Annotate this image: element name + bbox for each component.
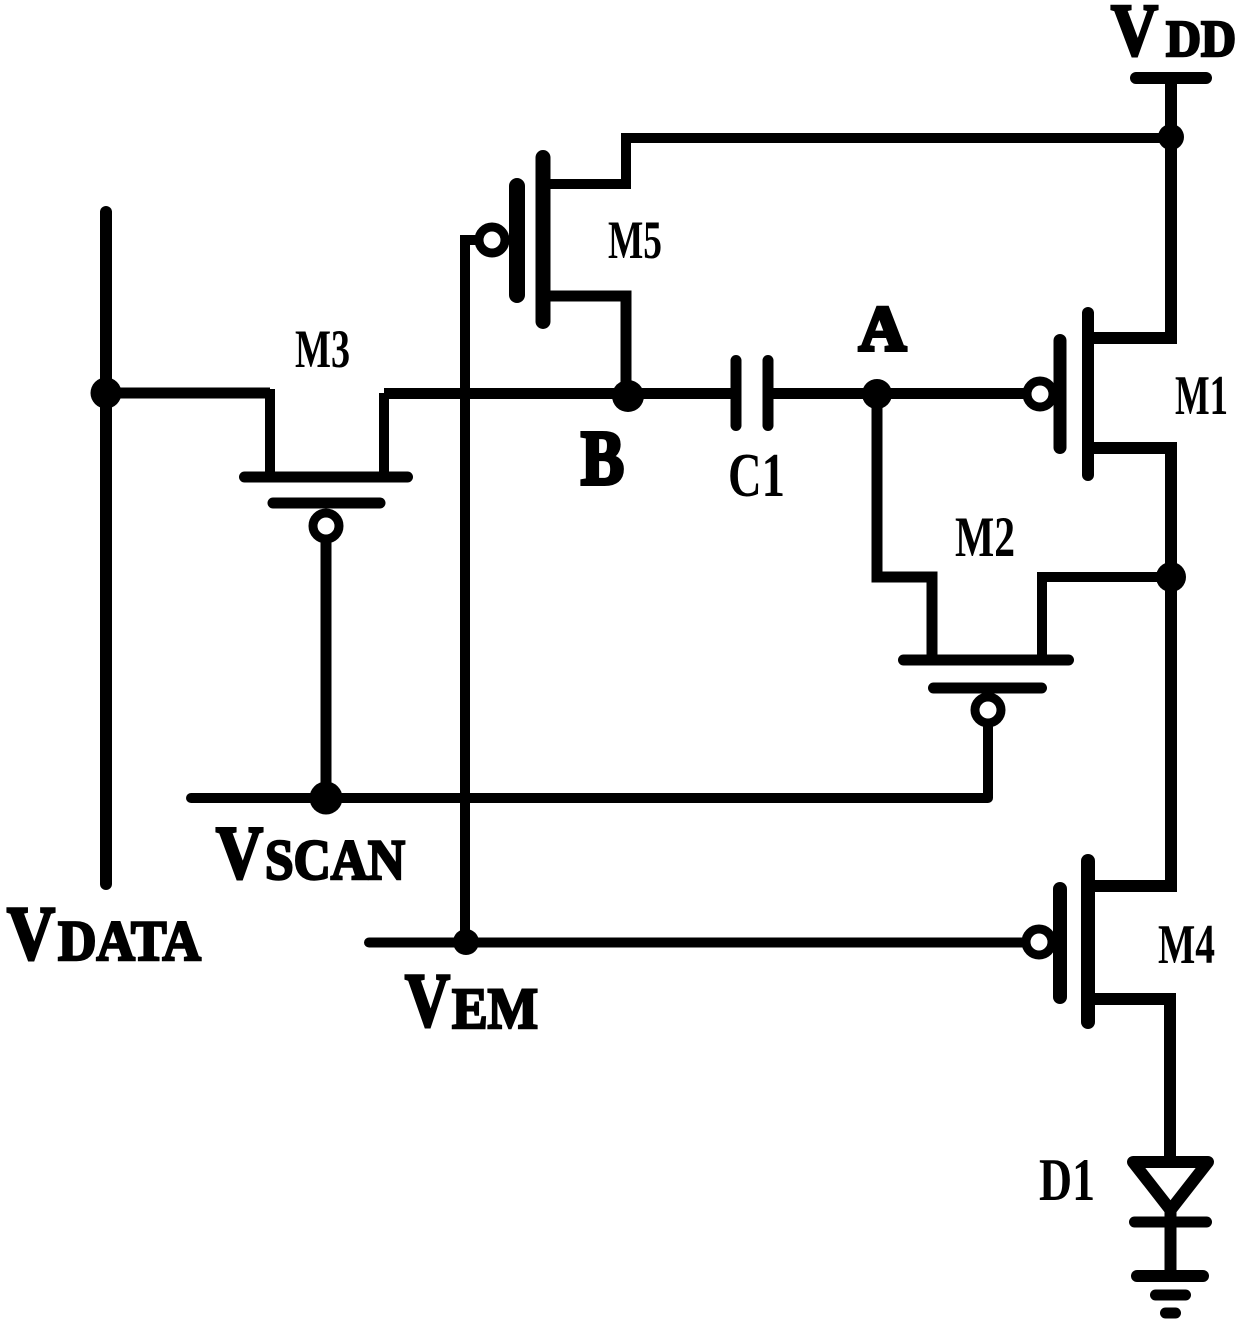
junction VEM / M5 gate column — [453, 929, 479, 955]
svg-text:DATA: DATA — [58, 910, 201, 973]
wire M5 gate to VEM line — [465, 240, 478, 943]
wire VDATA column — [100, 212, 112, 884]
svg-text:B: B — [581, 415, 624, 501]
junction VDATA node — [91, 378, 122, 409]
junction VSCAN / M3 gate — [310, 782, 343, 815]
svg-text:M4: M4 — [1158, 914, 1215, 976]
label D1 — [1039, 1147, 1095, 1213]
transistor M3 — [245, 477, 408, 539]
svg-text:M5: M5 — [608, 210, 662, 270]
wire C1 to node A to M1 gate — [773, 388, 1024, 399]
svg-text:EM: EM — [452, 976, 538, 1041]
wire VDATA to M3 source — [106, 388, 270, 399]
wire mid node to M2 drain — [1042, 577, 1171, 660]
ground — [1137, 1276, 1203, 1313]
wire M2 gate to VSCAN end — [983, 725, 993, 798]
svg-text:V: V — [405, 959, 450, 1043]
junction mid node — [1156, 562, 1186, 592]
transistor M1 — [1027, 313, 1088, 475]
junction node B — [612, 380, 644, 412]
label VDD — [1111, 0, 1236, 72]
transistor M2 — [904, 660, 1069, 723]
label VSCAN — [216, 812, 405, 895]
power VDD symbol — [1136, 78, 1206, 140]
label VEM — [405, 959, 538, 1043]
label M4 — [1158, 914, 1215, 976]
junction node A — [862, 379, 892, 409]
label A — [859, 294, 907, 364]
svg-text:V: V — [1111, 0, 1158, 72]
wire M4 drain to mid node — [1090, 576, 1171, 886]
svg-text:A: A — [859, 294, 907, 364]
label M2 — [955, 506, 1015, 569]
wire M5 source to node B — [545, 296, 626, 395]
diode D1 — [1133, 1162, 1208, 1222]
label B — [581, 415, 624, 501]
wire M3 gate to VSCAN — [321, 541, 332, 798]
wire D1 cathode to ground — [1165, 1210, 1177, 1278]
svg-text:DD: DD — [1166, 11, 1236, 68]
wire M4 source to D1 anode — [1090, 999, 1170, 1162]
wire M3 drain stub — [379, 393, 389, 477]
wire VEM line — [369, 938, 1024, 948]
wire VSCAN line — [191, 793, 988, 803]
wire M1 source to mid node — [1090, 448, 1171, 576]
svg-text:D1: D1 — [1039, 1147, 1095, 1213]
svg-text:V: V — [216, 812, 263, 895]
wire M3 source stub — [265, 389, 275, 477]
svg-text:M1: M1 — [1175, 365, 1228, 427]
capacitor C1 — [736, 361, 768, 426]
wire node A to M2 source — [877, 394, 932, 660]
label VDATA — [7, 892, 201, 976]
svg-text:M3: M3 — [295, 319, 350, 379]
svg-text:V: V — [7, 892, 55, 976]
transistor M4 — [1026, 861, 1088, 1022]
label M3 — [295, 319, 350, 379]
transistor M5 — [479, 158, 543, 322]
label M5 — [608, 210, 662, 270]
label C1 — [728, 442, 785, 510]
wire M1 drain to VDD node — [1090, 137, 1171, 338]
wire M3 drain to node B to C1 — [384, 388, 731, 399]
svg-text:SCAN: SCAN — [265, 829, 405, 892]
svg-text:C1: C1 — [728, 442, 785, 510]
svg-text:M2: M2 — [955, 506, 1015, 569]
wire top rail from M5 drain to VDD — [545, 138, 1171, 184]
label M1 — [1175, 365, 1228, 427]
junction VDD node — [1158, 124, 1184, 150]
